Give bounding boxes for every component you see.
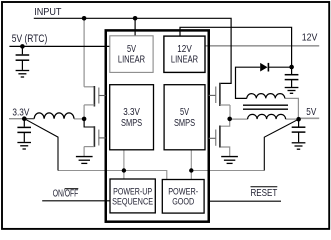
- svg-text:INPUT: INPUT: [34, 7, 62, 18]
- capacitor C2 (3.3V output): [17, 119, 31, 142]
- wire T1 secondary to diode anode: [236, 67, 261, 98]
- wire 3.3V feedback diagonal: [24, 119, 58, 171]
- svg-text:ON/OFF: ON/OFF: [53, 188, 79, 199]
- capacitor C3 (12V rectified): [285, 67, 299, 87]
- node 5V RTC: [20, 44, 25, 49]
- wire RESET: [209, 200, 281, 202]
- node INPUT junction (left): [82, 16, 87, 21]
- block 5V SMPS: [164, 85, 205, 150]
- transistor Q1 (3.3V high-side MOSFET): [84, 86, 106, 107]
- wire 3.3V output stub (grey): [9, 118, 24, 120]
- block 12V LINEAR: [164, 36, 205, 72]
- svg-text:POWER-: POWER-: [168, 187, 198, 197]
- node switch 3.3V: [82, 117, 87, 122]
- wire T1 secondary to 5V node (grey jog): [285, 98, 299, 119]
- svg-text:12V: 12V: [177, 44, 192, 55]
- svg-text:5V: 5V: [127, 44, 136, 55]
- label 5V: [306, 107, 316, 118]
- label RESET (overline): [251, 187, 278, 199]
- svg-text:SEQUENCE: SEQUENCE: [112, 196, 153, 206]
- capacitor C1 (5V RTC bypass): [16, 46, 30, 70]
- ground (Q2 source): [76, 157, 93, 164]
- svg-text:SMPS: SMPS: [174, 118, 195, 129]
- svg-text:SMPS: SMPS: [121, 118, 142, 129]
- wire 3.3V SMPS to POWER-UP SEQUENCE (grey vertical): [123, 150, 125, 179]
- ground (C2): [17, 143, 31, 150]
- node 3.3V output: [22, 116, 27, 121]
- rail 5V (grey): [298, 117, 319, 119]
- ground (C4): [292, 143, 306, 149]
- wire ON/OFF: [42, 200, 110, 202]
- wire switch node to Q2 drain/source rail (grey): [83, 105, 85, 156]
- svg-text:3.3V: 3.3V: [12, 107, 29, 118]
- wire Q2 drain from switch node (black): [84, 119, 94, 127]
- wire 5V (RTC): [9, 45, 109, 47]
- transformer T1 secondary (upper winding): [247, 94, 285, 99]
- wire 5V feedback diagonal: [264, 119, 298, 170]
- svg-text:GOOD: GOOD: [172, 197, 194, 207]
- node 12V rectified: [289, 65, 294, 70]
- wire INPUT tap to 5V LINEAR: [134, 18, 136, 36]
- transformer T1 primary (lower winding): [248, 114, 286, 119]
- svg-text:POWER-UP: POWER-UP: [113, 186, 152, 196]
- rail 12V (grey): [205, 45, 319, 47]
- svg-text:12V: 12V: [302, 33, 318, 44]
- label INPUT: [34, 7, 62, 18]
- svg-text:LINEAR: LINEAR: [171, 55, 198, 66]
- wire switch node 5V to T1 primary (grey): [230, 118, 248, 120]
- svg-text:5V: 5V: [180, 107, 189, 118]
- wire INPUT rail feed to Q1 drain (grey vertical): [83, 18, 85, 87]
- wire T1 primary to 5V output node (grey): [286, 118, 299, 120]
- svg-text:LINEAR: LINEAR: [118, 55, 145, 66]
- label 3.3V: [12, 107, 29, 118]
- label 12V: [302, 33, 318, 44]
- wire INPUT to Q3 drain: [34, 18, 231, 83]
- svg-text:RESET: RESET: [251, 188, 278, 199]
- wire sense bus right (grey, 5V sense): [191, 170, 264, 172]
- block 5V LINEAR: [110, 36, 153, 73]
- svg-text:5V: 5V: [306, 107, 316, 118]
- node sense 3.3V: [122, 168, 126, 172]
- transformer T1 core: [243, 105, 288, 109]
- label 5V (RTC): [12, 33, 48, 45]
- ground (Q4 source): [221, 157, 238, 164]
- inductor L1 (3.3V buck): [24, 113, 74, 119]
- block POWER-GOOD: [162, 180, 204, 214]
- block 3.3V SMPS: [110, 85, 154, 150]
- wire L1 to switch node (grey): [74, 118, 84, 120]
- transistor Q2 (3.3V low-side MOSFET): [84, 126, 106, 147]
- svg-text:5V (RTC): 5V (RTC): [12, 33, 48, 45]
- wire sense bus left (grey, 3.3V sense to POWER-GOOD): [58, 171, 167, 180]
- capacitor C4 (5V output): [292, 119, 306, 142]
- transistor Q3 (5V high-side MOSFET): [209, 83, 230, 106]
- ground (C3): [285, 88, 299, 94]
- node switch 5V: [227, 117, 232, 122]
- diode D1: [260, 63, 268, 72]
- wire Q4 drain and source leads (grey): [221, 119, 230, 156]
- label ON/OFF (overline on OFF): [53, 188, 79, 199]
- wire 12V rectified node to 12V LINEAR input: [180, 27, 292, 67]
- wire diode cathode to 12V node: [268, 66, 291, 68]
- wire Q3 source to switch node 5V (grey): [229, 105, 231, 119]
- block POWER-UP SEQUENCE: [110, 179, 155, 213]
- transistor Q4 (5V low-side MOSFET): [209, 126, 220, 148]
- node INPUT junction (IC tap): [133, 16, 138, 21]
- node 5V output: [296, 117, 301, 122]
- IC block outline: [106, 30, 209, 221]
- node sense 5V: [189, 168, 193, 172]
- svg-text:3.3V: 3.3V: [123, 107, 140, 118]
- ground (C1): [16, 71, 30, 78]
- wire 5V SMPS to POWER-GOOD (grey vertical): [190, 150, 192, 180]
